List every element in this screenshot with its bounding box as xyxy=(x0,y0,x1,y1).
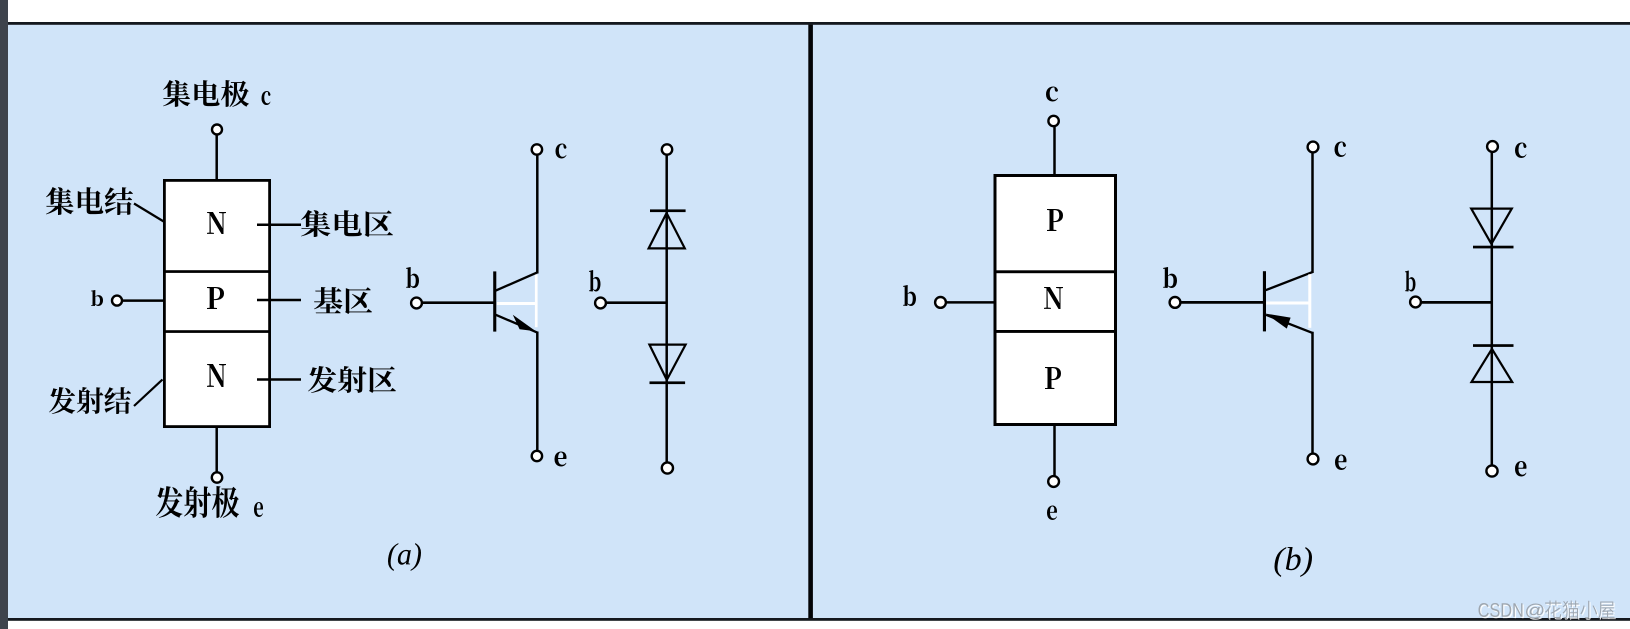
collector node of diode stack xyxy=(1487,141,1498,152)
wire: b node to PNP block xyxy=(946,301,995,304)
wire: base terminal to NPN block xyxy=(122,299,164,302)
region label N (base) xyxy=(1044,287,1063,309)
Q1 base bar xyxy=(493,271,496,331)
Q2 emitter diagonal xyxy=(1266,315,1313,333)
diode D2 triangle (pointing down) xyxy=(649,345,685,380)
label b of Q2 xyxy=(1163,267,1177,288)
label 发射区 (emitter region) xyxy=(308,366,396,393)
junction line P/N xyxy=(163,330,271,333)
diode D3 cathode bar xyxy=(1473,246,1514,249)
Q2 base bar xyxy=(1263,271,1266,331)
wire: diode stack vertical xyxy=(665,155,668,463)
label b (base terminal) xyxy=(91,290,103,306)
collector node c of Q2 xyxy=(1308,142,1319,153)
collector node of diode stack xyxy=(662,144,672,154)
emitter node of diode stack xyxy=(662,462,673,473)
Q1 collector diagonal xyxy=(496,272,538,290)
wire: b node to diode stack xyxy=(1421,301,1491,304)
left dark sidebar strip xyxy=(0,0,8,629)
label b of diode stack xyxy=(589,270,601,292)
diode D1 triangle (pointing up) xyxy=(649,213,685,248)
region label N (emitter region) xyxy=(207,364,226,387)
wire: diode stack vertical xyxy=(1491,152,1494,466)
leader tick to 集电区 xyxy=(257,224,301,227)
panel divider between (a) and (b) xyxy=(808,25,813,619)
wire: b node to Q1 base bar xyxy=(422,301,494,304)
junction line N/P xyxy=(163,270,271,273)
label c of PNP block xyxy=(1046,87,1058,102)
base node of diode stack xyxy=(1410,297,1421,308)
diode D3 triangle (pointing down) xyxy=(1471,209,1512,244)
label 发射结 (emitter junction) xyxy=(49,387,131,414)
emitter terminal node e xyxy=(212,472,222,482)
junction line P/N xyxy=(994,270,1118,273)
label 集电区 (collector region) xyxy=(301,210,393,237)
collector terminal node c xyxy=(212,125,222,135)
diode D1 cathode bar xyxy=(650,209,686,212)
label 基区 (base region) xyxy=(314,287,372,314)
Q1 emitter arrowhead xyxy=(513,315,536,331)
Q2 collector diagonal xyxy=(1265,272,1313,290)
base node of diode stack xyxy=(595,298,606,309)
base node of Q1 xyxy=(411,298,422,309)
label b of Q1 xyxy=(406,267,419,288)
emitter node e of Q1 xyxy=(532,451,542,461)
label e of PNP block xyxy=(1047,505,1057,519)
wire: b node to Q2 base bar xyxy=(1181,301,1265,304)
emitter terminal node xyxy=(1048,476,1059,487)
region label P (emitter) xyxy=(1045,367,1061,389)
wire: Q2 emitter down to e node xyxy=(1311,332,1314,454)
collector terminal node xyxy=(1048,116,1058,126)
Q1 emitter diagonal xyxy=(496,315,538,333)
caption (a) xyxy=(388,543,421,571)
wire: NPN block to emitter terminal xyxy=(215,427,218,473)
wire: b node to diode stack xyxy=(606,301,666,304)
wire: PNP block to e node xyxy=(1053,425,1056,477)
base terminal node xyxy=(112,296,122,306)
leader line 集电结 to block xyxy=(134,204,165,223)
watermark CSDN @花猫小屋 xyxy=(1478,600,1615,619)
wire: Q1 emitter down to e node xyxy=(536,332,539,451)
region label P (base region) xyxy=(207,287,224,309)
PNP block outline xyxy=(995,176,1116,425)
white overpaint lines inside Q2 symbol xyxy=(1266,274,1311,328)
label b of PNP block xyxy=(903,285,916,306)
wire: c node to PNP block xyxy=(1053,127,1056,175)
wire: Q2 collector up to c node xyxy=(1311,153,1314,274)
emitter node of diode stack xyxy=(1486,465,1497,476)
diode D4 cathode bar xyxy=(1473,344,1514,347)
label 集电结 (collector junction) xyxy=(46,187,133,215)
emitter node e of Q2 xyxy=(1308,454,1319,465)
diode D2 cathode bar xyxy=(650,381,686,384)
diode D4 triangle (pointing up) xyxy=(1472,349,1513,382)
collector node c of Q1 xyxy=(532,144,542,154)
base node of Q2 xyxy=(1170,297,1181,308)
base terminal node xyxy=(935,297,946,308)
label c of diode stack xyxy=(1515,143,1526,159)
white overpaint lines inside Q1 symbol xyxy=(497,275,538,328)
label c of Q2 xyxy=(1335,142,1346,158)
label e of Q1 xyxy=(554,452,566,467)
region label P (collector) xyxy=(1047,209,1063,231)
label e of Q2 xyxy=(1335,455,1346,471)
label e of diode stack xyxy=(1515,461,1526,477)
label 发射极 e (emitter electrode) xyxy=(156,486,263,518)
NPN block outline xyxy=(164,180,269,426)
leader line 发射结 to block xyxy=(134,380,163,407)
Q2 emitter arrowhead (pointing into base) xyxy=(1266,314,1291,329)
label 集电极 c (collector electrode) xyxy=(163,80,270,107)
junction line N/P xyxy=(994,330,1118,333)
leader tick to 发射区 xyxy=(257,378,301,381)
figure bottom border line xyxy=(8,618,1630,621)
caption (b) xyxy=(1274,547,1312,577)
region label N (collector region) xyxy=(207,212,226,234)
label c of Q1 xyxy=(556,144,567,159)
figure top border line xyxy=(8,22,1630,25)
label b of diode stack xyxy=(1405,271,1416,292)
wire: Q1 collector up to c node xyxy=(536,155,539,274)
leader tick to 基区 xyxy=(257,299,301,302)
wire: collector terminal to NPN block xyxy=(215,135,218,180)
